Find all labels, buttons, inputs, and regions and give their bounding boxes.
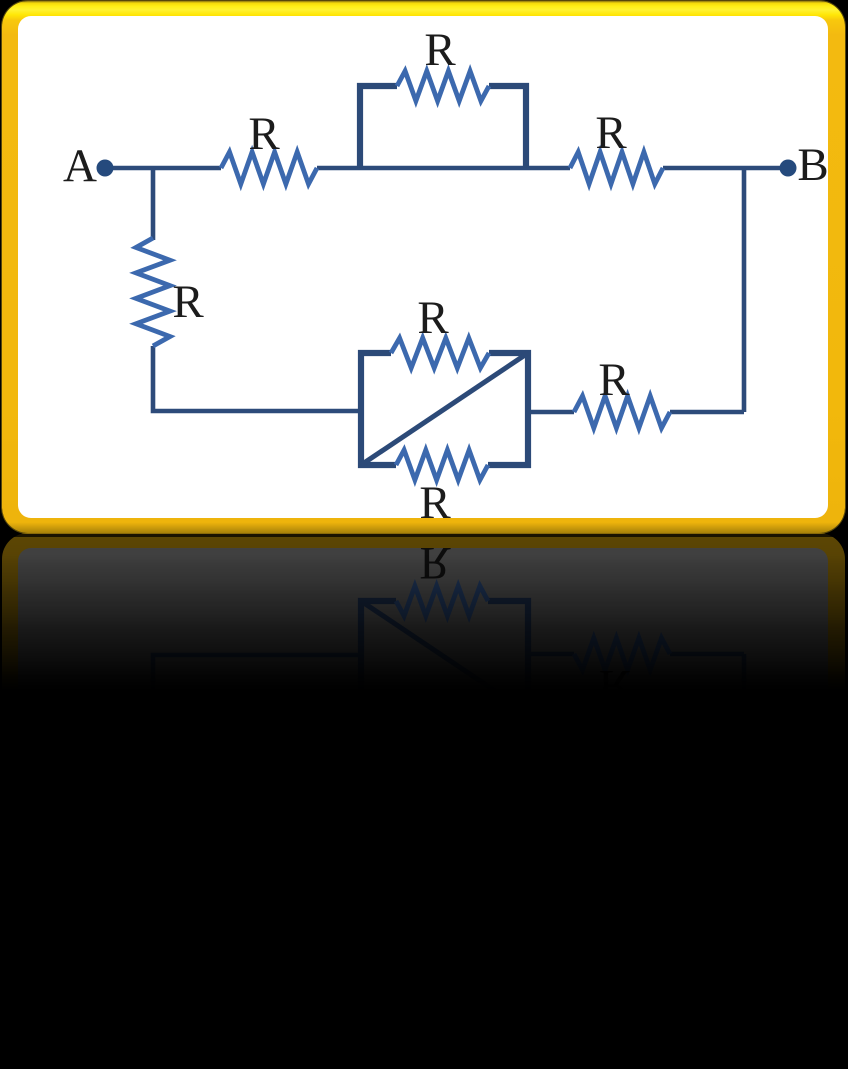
wire: diagonal short link inside box [361, 353, 528, 465]
resistor R (top-left, on rail) [221, 152, 317, 184]
svg-text:R: R [172, 738, 204, 790]
resistor R (diagonal box, top) [391, 338, 489, 368]
svg-text:R: R [598, 354, 630, 406]
svg-text:R: R [248, 906, 280, 958]
svg-text:R: R [424, 990, 456, 1042]
wire: parallel short-circuit loop box (top) [360, 86, 526, 168]
svg-text:R: R [598, 660, 630, 712]
svg-text:R: R [595, 907, 627, 959]
wire: right vertical from top rail to bottom branch [742, 168, 747, 412]
wire: diagonal parallel box outline [361, 353, 528, 465]
slide frame (yellow rounded border) [2, 1, 845, 533]
resistor R (bottom-right) [574, 396, 670, 428]
resistor R (in parallel loop box) [397, 71, 489, 101]
node B terminal dot [780, 160, 797, 177]
wire: top rail from node A to node B [105, 166, 788, 171]
svg-text:R: R [172, 276, 204, 328]
svg-text:A: A [63, 140, 97, 192]
svg-text:R: R [424, 24, 456, 76]
wire: box output to resistor R7 [528, 410, 744, 415]
resistor R (left branch, vertical) [136, 238, 170, 346]
reflection of slide (decorative mirrored copy fading to black) [0, 534, 848, 537]
svg-text:R: R [419, 537, 451, 589]
white slide panel [18, 16, 828, 518]
resistor R (diagonal box, bottom) [396, 450, 488, 480]
svg-text:R: R [248, 108, 280, 160]
wire: left branch vertical drop from top rail [151, 168, 156, 240]
svg-text:R: R [419, 477, 451, 529]
svg-text:R: R [417, 722, 449, 774]
svg-text:B: B [797, 875, 828, 927]
svg-text:R: R [595, 107, 627, 159]
resistor R (top-right, on rail) [570, 152, 663, 184]
svg-text:B: B [797, 139, 828, 191]
wire: left branch lower segment and bottom run to box [153, 346, 361, 411]
svg-text:A: A [63, 874, 97, 926]
svg-text:R: R [417, 292, 449, 344]
node A terminal dot [97, 160, 114, 177]
